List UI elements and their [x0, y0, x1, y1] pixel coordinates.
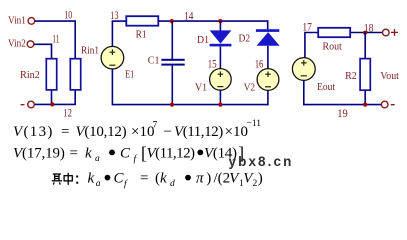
- svg-text:V(17,19): V(17,19): [13, 145, 65, 161]
- svg-text:C: C: [114, 170, 125, 186]
- svg-text:D2: D2: [239, 33, 251, 45]
- wire top rail middle: [158, 20, 267, 22]
- svg-text:D1: D1: [197, 34, 209, 46]
- junction dot C1 top: [170, 19, 174, 23]
- svg-text:−11: −11: [247, 119, 262, 129]
- svg-text:Rout: Rout: [323, 41, 342, 53]
- formula line 3 math: [88, 170, 263, 189]
- svg-text:(k: (k: [155, 170, 167, 186]
- svg-text:=: =: [140, 170, 148, 186]
- junction dot C1 bottom: [170, 103, 174, 107]
- wire C1 bottom leg: [171, 66, 173, 105]
- terminal plus right: [383, 29, 390, 36]
- terminal minus right: [381, 101, 388, 108]
- wire D2 bottom leg: [267, 46, 269, 69]
- svg-text:d: d: [170, 179, 175, 189]
- wire D1 top leg: [219, 21, 221, 30]
- svg-text:): ): [258, 170, 263, 186]
- svg-text:=: =: [61, 124, 69, 140]
- source V2: [257, 69, 279, 91]
- resistor Rin2: [46, 59, 56, 90]
- resistor R2: [360, 59, 370, 91]
- svg-text:15: 15: [208, 57, 217, 71]
- junction dot node 12: [50, 102, 54, 106]
- wire Rin2 bottom leg: [51, 90, 53, 105]
- wire top rail left: [112, 20, 127, 22]
- svg-text:=: =: [70, 145, 78, 161]
- svg-text:19: 19: [337, 106, 348, 120]
- svg-text:k: k: [88, 170, 95, 186]
- terminal Vin2: [27, 41, 34, 48]
- source V1: [210, 69, 232, 91]
- svg-text:a: a: [96, 179, 101, 189]
- svg-text:2: 2: [253, 179, 258, 189]
- wire E1 bottom leg: [111, 69, 113, 105]
- wire Vin1 to Rin1 top: [35, 21, 75, 59]
- svg-text:C1: C1: [148, 55, 160, 67]
- svg-text:a: a: [95, 154, 100, 164]
- wire Rin1 bottom leg: [74, 90, 76, 105]
- svg-text:Eout: Eout: [317, 81, 335, 93]
- svg-text:V(11,12): V(11,12): [174, 124, 223, 140]
- svg-text:−: −: [164, 124, 172, 140]
- formula line 3 chinese qizhong: [52, 173, 72, 185]
- svg-text:/(2: /(2: [214, 170, 231, 186]
- svg-text:V2: V2: [244, 81, 255, 93]
- svg-text:V(11,12): V(11,12): [147, 145, 196, 161]
- svg-text:12: 12: [63, 106, 72, 120]
- svg-text:14: 14: [184, 8, 193, 22]
- svg-text:V(13): V(13): [13, 124, 54, 140]
- wire left bottom rail: [34, 103, 76, 105]
- colon after qizhong: [76, 176, 78, 178]
- wire V1 bottom leg: [219, 90, 221, 104]
- svg-text:×10: ×10: [131, 124, 154, 140]
- diode D2: [256, 29, 279, 32]
- wire V2 bottom leg: [267, 90, 269, 105]
- resistor R1: [126, 16, 158, 26]
- svg-text:Vin1: Vin1: [8, 15, 26, 27]
- svg-text:Vout: Vout: [380, 70, 399, 82]
- formula line 1: [13, 119, 261, 140]
- svg-text:Rin2: Rin2: [20, 69, 40, 81]
- wire middle bottom rail: [112, 104, 268, 106]
- resistor Rin1: [70, 59, 80, 90]
- wire right bottom rail: [304, 104, 382, 106]
- capacitor C1 plate2: [161, 64, 184, 66]
- svg-text:k: k: [85, 145, 92, 161]
- svg-text:): ): [206, 170, 211, 186]
- wire E1 top leg: [111, 21, 113, 46]
- source E1: [101, 46, 124, 69]
- svg-text:Rin1: Rin1: [81, 45, 99, 57]
- svg-text:7: 7: [153, 121, 158, 131]
- wire D1 bottom leg: [219, 46, 221, 68]
- capacitor C1 plate1: [161, 59, 184, 61]
- junction dot R2 bottom: [363, 103, 367, 107]
- formula line 2: [13, 143, 244, 165]
- svg-text:10: 10: [64, 8, 72, 22]
- svg-text:π: π: [196, 170, 204, 186]
- svg-text:R2: R2: [345, 70, 357, 82]
- terminal Vin1: [28, 18, 35, 25]
- svg-text:17: 17: [302, 19, 312, 33]
- wire R2 top leg: [364, 33, 366, 59]
- junction dot node18: [363, 31, 367, 35]
- wire right top rail a: [305, 33, 319, 58]
- svg-text:×10: ×10: [225, 124, 248, 140]
- svg-text:C: C: [120, 145, 131, 161]
- resistor Rout: [318, 28, 350, 37]
- wire C1 top leg: [171, 21, 173, 59]
- label plus right: [391, 29, 398, 36]
- source Eout: [292, 58, 315, 81]
- wire Eout bottom leg: [303, 80, 305, 105]
- junction dot V1 bottom: [218, 103, 222, 107]
- svg-text:ybx8.cn: ybx8.cn: [229, 154, 294, 169]
- diode D1: [210, 30, 232, 43]
- terminal minus left: [28, 101, 35, 108]
- wire D2 corner leg from rail: [267, 20, 269, 29]
- svg-text:11: 11: [52, 32, 59, 46]
- label minus right: [391, 104, 395, 106]
- svg-text:V1: V1: [195, 82, 207, 94]
- label minus left: [21, 104, 25, 106]
- wire right top rail b: [350, 32, 383, 34]
- svg-text:16: 16: [255, 57, 264, 71]
- svg-text:R1: R1: [136, 28, 147, 40]
- svg-text:V(10,12): V(10,12): [76, 124, 127, 140]
- wire Vin2 to Rin2 top: [34, 44, 52, 58]
- svg-text:Vin2: Vin2: [8, 38, 26, 50]
- svg-text:13: 13: [110, 8, 118, 22]
- junction dot D1 top: [218, 19, 222, 23]
- wire R2 bottom leg: [364, 90, 366, 104]
- svg-text:E1: E1: [125, 68, 134, 80]
